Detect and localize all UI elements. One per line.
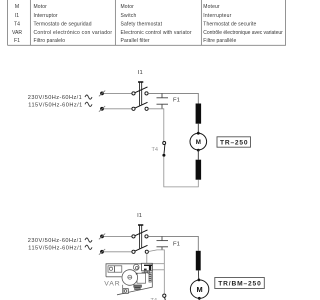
VAR jumper component (134, 285, 142, 287)
wire L2 to switch (104, 251, 132, 253)
svg-text:Moteur: Moteur (203, 4, 220, 10)
svg-text:Interruptor: Interruptor (34, 13, 58, 19)
svg-text:Electronic control with variat: Electronic control with variator (121, 30, 192, 36)
svg-text:TR–250: TR–250 (220, 140, 248, 147)
label box TR/BM-250 (215, 278, 264, 289)
VAR pcb outline (106, 264, 152, 295)
VAR terminal block (142, 263, 153, 271)
wire L1 to switch (104, 92, 132, 94)
switch I1 (132, 225, 149, 253)
VAR potentiometer (122, 270, 138, 286)
VAR bottom-left hole square (123, 285, 129, 294)
wire switch top to motor branch (148, 236, 198, 250)
VAR rect B (114, 266, 121, 272)
svg-text:Filtro paralelo: Filtro paralelo (34, 38, 66, 44)
svg-text:Control electrónico con variad: Control electrónico con variador (34, 30, 113, 36)
svg-text:Safety thermostat: Safety thermostat (121, 21, 163, 27)
svg-text:M: M (197, 285, 203, 294)
svg-text:I1: I1 (15, 13, 19, 19)
svg-text:Parallel filter: Parallel filter (121, 38, 150, 44)
wire motor to winding lower (197, 150, 199, 160)
legend spanish column (34, 4, 113, 44)
svg-text:115V/50Hz-60Hz/1: 115V/50Hz-60Hz/1 (28, 102, 82, 108)
wire L1 to switch (104, 235, 132, 237)
wire L2 to switch (104, 108, 132, 110)
VAR hole A (109, 267, 112, 270)
svg-text:F1: F1 (173, 97, 180, 103)
svg-text:T4: T4 (14, 21, 20, 27)
svg-text:TR/BM–250: TR/BM–250 (218, 281, 261, 288)
svg-text:I1: I1 (138, 70, 143, 76)
svg-text:F1: F1 (14, 38, 20, 44)
wire switch top to motor branch (148, 93, 198, 103)
sine symbol line 2 (85, 245, 92, 249)
motor M circle (190, 279, 208, 300)
legend english column (121, 4, 192, 44)
svg-text:Motor: Motor (121, 4, 135, 10)
motor winding (196, 251, 201, 271)
sine symbol line 1 (85, 95, 92, 99)
legend codes column (12, 4, 22, 44)
svg-text:VAR: VAR (104, 281, 119, 288)
legend french column (203, 4, 283, 44)
terminal L1 (99, 234, 105, 240)
VAR pin header (149, 274, 152, 283)
terminal L1 (99, 91, 105, 97)
capacitor F1 (157, 236, 169, 250)
svg-text:Termostato de seguridad: Termostato de seguridad (34, 21, 92, 27)
wire switch bottom to T4 (148, 109, 164, 142)
sine symbol line 2 (85, 102, 92, 106)
wire winding to motor (197, 270, 199, 279)
motor winding upper (196, 104, 202, 124)
svg-text:115V/50Hz-60Hz/1: 115V/50Hz-60Hz/1 (28, 245, 82, 251)
svg-text:T4: T4 (152, 147, 159, 153)
svg-text:Switch: Switch (121, 13, 137, 19)
svg-text:230V/50Hz-60Hz/1: 230V/50Hz-60Hz/1 (28, 95, 82, 101)
terminal L2 (99, 249, 105, 255)
wire winding to motor (197, 124, 199, 133)
VAR connector strip below block (142, 271, 153, 273)
svg-text:M: M (15, 4, 19, 10)
svg-text:Filtre parallèle: Filtre parallèle (203, 38, 236, 44)
capacitor F1 (157, 93, 169, 108)
wire T4 to bottom (164, 157, 199, 187)
svg-text:Contrôle électronique avec var: Contrôle électronique avec variateur (203, 30, 283, 36)
wire switch bottom to T4 (149, 250, 165, 294)
VAR ring hole (133, 264, 139, 270)
svg-text:VAR: VAR (12, 30, 22, 36)
thermostat T4 (162, 142, 165, 157)
wire switch into VAR (146, 254, 148, 264)
svg-text:I1: I1 (137, 213, 142, 219)
VAR inner rect (137, 273, 146, 283)
svg-text:M: M (196, 139, 201, 146)
terminal L2 (99, 106, 105, 112)
wire VAR to T4 branch (152, 269, 164, 271)
svg-text:F1: F1 (173, 241, 180, 247)
wire VAR block top to T4 branch (152, 263, 164, 265)
wire below motor (198, 298, 200, 300)
svg-text:Interrupteur: Interrupteur (203, 13, 231, 19)
VAR mount rect A (108, 266, 114, 272)
motor M circle (190, 132, 207, 152)
thermostat T4 blade cut off (164, 297, 167, 300)
legend table grid (8, 0, 286, 45)
svg-text:Motor: Motor (34, 4, 48, 10)
sine symbol line 1 (85, 238, 92, 242)
switch I1 (132, 82, 148, 110)
label box TR-250 (217, 137, 251, 147)
thermostat T4 top contact (163, 294, 166, 297)
svg-text:230V/50Hz-60Hz/1: 230V/50Hz-60Hz/1 (28, 238, 82, 244)
motor winding lower (196, 160, 202, 180)
svg-text:Thermostat de securite: Thermostat de securite (203, 21, 256, 27)
